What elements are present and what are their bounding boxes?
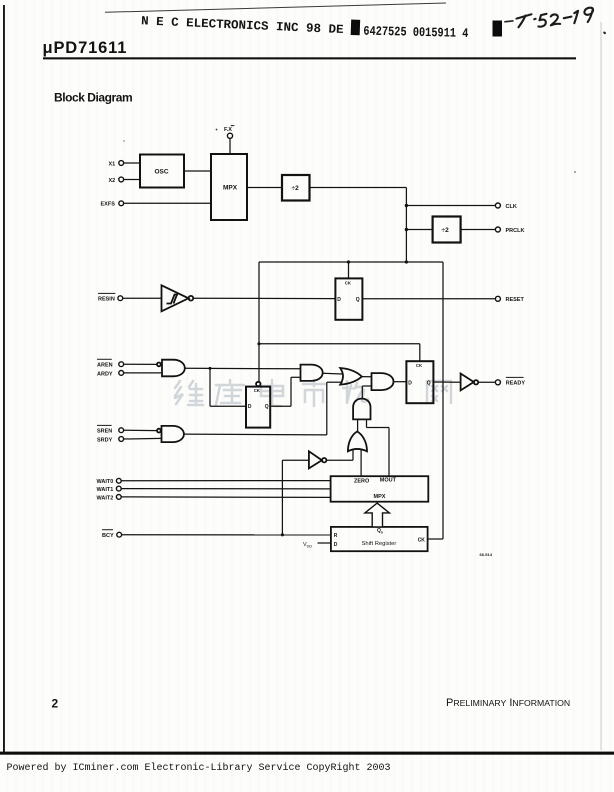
svg-text:Shift Register: Shift Register (362, 541, 397, 547)
svg-text:ZERO: ZERO (354, 478, 370, 484)
svg-text:D: D (408, 380, 412, 386)
svg-text:RESET: RESET (506, 297, 525, 303)
svg-text:RESIN: RESIN (98, 297, 115, 303)
svg-text:MPX: MPX (223, 184, 238, 191)
svg-text:CK: CK (418, 537, 426, 543)
svg-text:μPD71611: μPD71611 (43, 39, 128, 57)
svg-text:WAIT0: WAIT0 (97, 479, 114, 485)
svg-text:Block Diagram: Block Diagram (54, 91, 132, 105)
svg-text:2: 2 (52, 697, 59, 711)
svg-text:PRELIMINARY INFORMATION: PRELIMINARY INFORMATION (446, 697, 570, 709)
svg-text:66-514: 66-514 (480, 552, 493, 557)
svg-text:PRCLK: PRCLK (506, 228, 525, 234)
svg-text:÷2: ÷2 (442, 227, 450, 234)
svg-text:Q: Q (265, 404, 269, 410)
svg-text:N E C ELECTRONICS INC 98 DE: N E C ELECTRONICS INC 98 DE (141, 14, 344, 37)
svg-text:WAIT1: WAIT1 (97, 487, 114, 493)
svg-text:R: R (334, 533, 338, 539)
svg-text:OSC: OSC (155, 169, 169, 176)
svg-text:X1: X1 (109, 161, 116, 167)
svg-text:X2: X2 (109, 178, 116, 184)
svg-text:BCY: BCY (102, 533, 114, 539)
svg-text:AREN: AREN (97, 363, 113, 369)
svg-text:CK: CK (345, 281, 352, 286)
svg-text:SRDY: SRDY (97, 437, 113, 443)
svg-text:Powered by ICminer.com Electro: Powered by ICminer.com Electronic-Librar… (7, 762, 391, 774)
svg-text:SREN: SREN (97, 429, 112, 435)
svg-text:MPX: MPX (374, 494, 386, 500)
svg-text:Q: Q (427, 380, 431, 386)
svg-text:D: D (248, 404, 252, 410)
svg-text:D: D (334, 542, 338, 548)
svg-text:CK: CK (416, 363, 423, 368)
svg-text:READY: READY (506, 381, 526, 387)
svg-text:CK: CK (254, 388, 261, 393)
svg-text:F.X: F.X (224, 127, 232, 133)
svg-text:CLK: CLK (506, 204, 517, 210)
svg-text:D: D (337, 297, 341, 303)
svg-text:÷2: ÷2 (292, 185, 300, 192)
svg-text:ARDY: ARDY (97, 371, 113, 377)
svg-text:VDD: VDD (303, 542, 312, 549)
svg-text:WAIT2: WAIT2 (97, 495, 114, 501)
svg-text:MOUT: MOUT (380, 478, 397, 484)
svg-text:Q: Q (356, 297, 360, 303)
svg-text:EXFS: EXFS (101, 202, 116, 208)
svg-text:6427525 0015911 4: 6427525 0015911 4 (363, 24, 468, 41)
svg-text:Qn: Qn (377, 528, 383, 534)
